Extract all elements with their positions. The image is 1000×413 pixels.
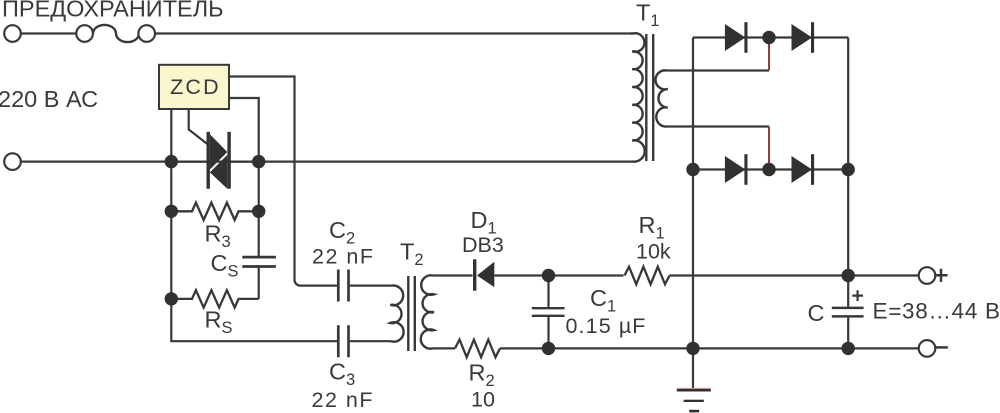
svg-text:0.15 µF: 0.15 µF <box>566 314 647 338</box>
wire: plus column bridge to C <box>847 170 849 307</box>
wire: bottom 220V rail to T1 primary <box>21 161 632 163</box>
wire: top feed from left terminal to fuse <box>21 32 76 34</box>
wire: ZCD left pin down to triac left node <box>170 109 172 162</box>
svg-text:10k: 10k <box>636 240 671 264</box>
wire: diac D1 to node C1/R1 <box>495 274 624 276</box>
wire: left branch down from triac node to C3 <box>171 162 337 342</box>
terminal output minus <box>919 340 936 357</box>
wire: T2 secondary bottom to R2 <box>433 347 456 349</box>
terminal output plus <box>919 267 936 284</box>
label terminal plus <box>934 269 947 282</box>
diode D3 bridge top-right <box>792 24 813 51</box>
wire: right branch triac node down to R3 <box>258 162 260 212</box>
diode D2 bridge top-left <box>725 24 746 51</box>
svg-text:22 nF: 22 nF <box>312 245 374 269</box>
wire: C3 to T2 primary bottom <box>350 340 391 342</box>
wire: C bottom lead <box>847 318 849 349</box>
diode D4 bridge bottom-left <box>725 156 746 183</box>
wire: R3 node down to Cs top plate <box>258 211 260 256</box>
node bridge bottom right <box>842 163 855 176</box>
svg-text:220 В АС: 220 В АС <box>0 86 98 112</box>
diac D1 bar <box>473 259 476 290</box>
capacitor C1 top lead <box>547 276 549 307</box>
capacitor Cs plates <box>242 257 276 266</box>
fuse F filament wave <box>93 25 139 42</box>
node C1 bottom <box>542 342 555 355</box>
transformer T1 primary winding <box>631 33 645 161</box>
svg-text:ZCD: ZCD <box>170 75 221 99</box>
capacitor C1 bottom lead <box>547 317 549 348</box>
node bridge top middle <box>762 31 775 44</box>
svg-text:RS: RS <box>205 307 233 338</box>
label C polarity plus <box>852 290 863 301</box>
svg-text:ПРЕДОХРАНИТЕЛЬ: ПРЕДОХРАНИТЕЛЬ <box>2 0 224 22</box>
svg-text:C2: C2 <box>329 217 355 248</box>
capacitor C3 plates <box>338 325 348 357</box>
node plus <box>842 269 855 282</box>
wire: C2 to T2 primary <box>350 285 392 287</box>
svg-text:22 nF: 22 nF <box>312 388 374 412</box>
wire: bottom output rail R2 to minus terminal <box>500 347 919 349</box>
node R3 left <box>165 205 178 218</box>
wire: T1 secondary top lead <box>667 69 770 71</box>
wire: T1 secondary bottom lead <box>667 125 770 127</box>
fuse terminal right <box>138 25 155 42</box>
transformer T2 secondary winding <box>421 275 434 348</box>
svg-text:T2: T2 <box>400 239 424 270</box>
ZCD block U1 <box>159 65 229 109</box>
svg-text:C1: C1 <box>590 285 616 316</box>
node A triac left <box>165 155 178 168</box>
node B triac right <box>252 155 265 168</box>
wire: bridge top row <box>693 36 848 38</box>
resistor R3 body <box>171 203 258 220</box>
node R3 right <box>252 205 265 218</box>
transformer T1 secondary winding <box>656 70 668 126</box>
capacitor C2 plates <box>338 270 348 302</box>
resistor Rs body <box>171 290 258 307</box>
wire: fuse to transformer T1 primary <box>155 32 630 34</box>
node bridge bottom middle <box>762 163 775 176</box>
svg-text:R2: R2 <box>469 360 495 391</box>
transformer T2 primary winding <box>390 286 403 342</box>
svg-text:10: 10 <box>471 388 495 412</box>
wire: ZCD right lower to triac right node <box>229 98 259 162</box>
triac VS1 <box>171 132 258 189</box>
wire: red link secondary top to bridge top node <box>768 38 770 71</box>
wire: Cs bottom plate down to Rs right end <box>258 267 260 299</box>
terminal input bottom <box>4 153 21 170</box>
fuse terminal left <box>76 25 93 42</box>
wire: T2 secondary top to diac D1 <box>433 274 473 276</box>
node C1 top <box>542 269 555 282</box>
resistor R2 body <box>455 340 500 358</box>
wire: bridge right column <box>847 38 849 170</box>
wire: bridge left column <box>692 38 694 170</box>
wire: ZCD right upper to C2 (node down x=294.5) <box>229 77 337 286</box>
wire: red link secondary bottom to bridge bottom node <box>768 127 770 170</box>
wire: R1 to bridge plus column <box>670 274 849 276</box>
svg-text:C3: C3 <box>329 359 355 390</box>
label terminal minus <box>934 346 947 349</box>
ground <box>677 388 711 413</box>
wire: ground column from bridge <box>692 170 694 389</box>
diode D5 bridge bottom-right <box>792 156 813 183</box>
svg-text:DB3: DB3 <box>462 233 504 257</box>
svg-text:CS: CS <box>211 250 239 281</box>
capacitor C1 plates <box>532 308 565 316</box>
wire: plus node to plus terminal <box>848 274 919 276</box>
node Rs left <box>165 292 178 305</box>
terminal input top <box>4 25 21 42</box>
diac D1 triangle <box>477 262 494 287</box>
transformer T1 core <box>646 34 653 161</box>
capacitor C plates <box>832 308 864 317</box>
svg-text:R3: R3 <box>205 221 231 252</box>
node ground rail <box>686 342 699 355</box>
node minus <box>842 342 855 355</box>
svg-text:E=38…44 В: E=38…44 В <box>873 299 1000 324</box>
wire: ZCD gate pin to triac gate <box>189 109 207 144</box>
svg-text:T1: T1 <box>636 0 660 30</box>
node bridge bottom left <box>686 163 699 176</box>
svg-text:R1: R1 <box>639 212 665 243</box>
resistor R1 body <box>625 267 670 285</box>
svg-text:C: C <box>808 300 825 326</box>
wire: bridge bottom row <box>693 168 848 170</box>
transformer T2 core <box>408 276 415 351</box>
